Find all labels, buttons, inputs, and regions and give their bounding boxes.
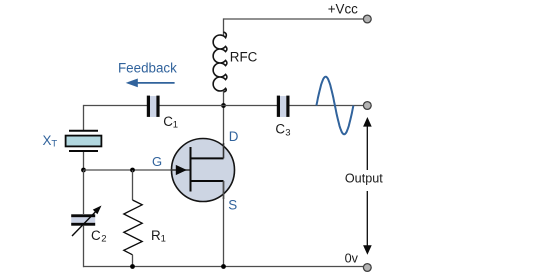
node: drain junction: [221, 103, 226, 108]
wire: RFC bottom to drain (through junction): [223, 91, 225, 160]
svg-text:1: 1: [161, 234, 166, 245]
wire: gate wire: [84, 169, 191, 171]
svg-text:D: D: [229, 129, 239, 144]
node: gate/R1 junction: [130, 168, 135, 173]
wire: +Vcc top rail: [224, 18, 364, 20]
output double arrow: [344, 117, 387, 255]
terminal output: [363, 102, 371, 110]
resistor R1: [124, 170, 142, 267]
svg-text:2: 2: [101, 234, 106, 245]
svg-text:Feedback: Feedback: [118, 60, 177, 75]
svg-text:T: T: [51, 138, 57, 149]
svg-text:0v: 0v: [345, 252, 359, 266]
svg-text:3: 3: [285, 128, 290, 139]
node: crystal/gate junction: [81, 168, 86, 173]
svg-text:RFC: RFC: [230, 50, 258, 65]
svg-text:S: S: [228, 198, 237, 213]
node: source bottom junction: [221, 264, 226, 269]
wire: C2 to bottom rail: [83, 226, 85, 268]
wire: gate junction down to C2: [83, 170, 85, 214]
wire: C3 to output terminal: [290, 105, 364, 107]
wire: feedback wire y=105.5 from crystal to C1: [84, 105, 148, 107]
svg-text:C: C: [91, 228, 101, 243]
svg-text:C: C: [275, 122, 285, 137]
svg-text:X: X: [43, 133, 52, 148]
terminal +Vcc: [363, 15, 371, 23]
svg-text:C: C: [163, 114, 173, 129]
sine wave: [316, 77, 353, 135]
transistor Q1 (JFET): [171, 139, 235, 202]
svg-text:G: G: [152, 154, 162, 169]
capacitor C2 (variable): [71, 206, 101, 237]
wire: drain junction to C3: [224, 105, 278, 107]
wire: vertical from top rail to RFC top: [223, 18, 225, 35]
svg-text:1: 1: [173, 119, 178, 130]
feedback arrow: [126, 79, 175, 88]
wire: source to bottom rail: [223, 181, 225, 267]
wire: left vertical from feedback wire to crystal: [83, 105, 85, 130]
svg-text:Output: Output: [345, 171, 383, 185]
crystal XT: [66, 131, 102, 151]
svg-text:+Vcc: +Vcc: [328, 1, 358, 16]
wire: bottom 0v rail: [84, 266, 364, 268]
svg-text:R: R: [151, 228, 161, 243]
capacitor C1: [147, 96, 160, 117]
terminal 0v: [363, 264, 371, 272]
wire: crystal bottom to gate junction: [83, 152, 85, 170]
capacitor C3: [277, 96, 290, 117]
node: R1 bottom junction: [130, 264, 135, 269]
wire: C1 to drain junction: [160, 105, 224, 107]
inductor RFC (coil): [213, 32, 227, 92]
